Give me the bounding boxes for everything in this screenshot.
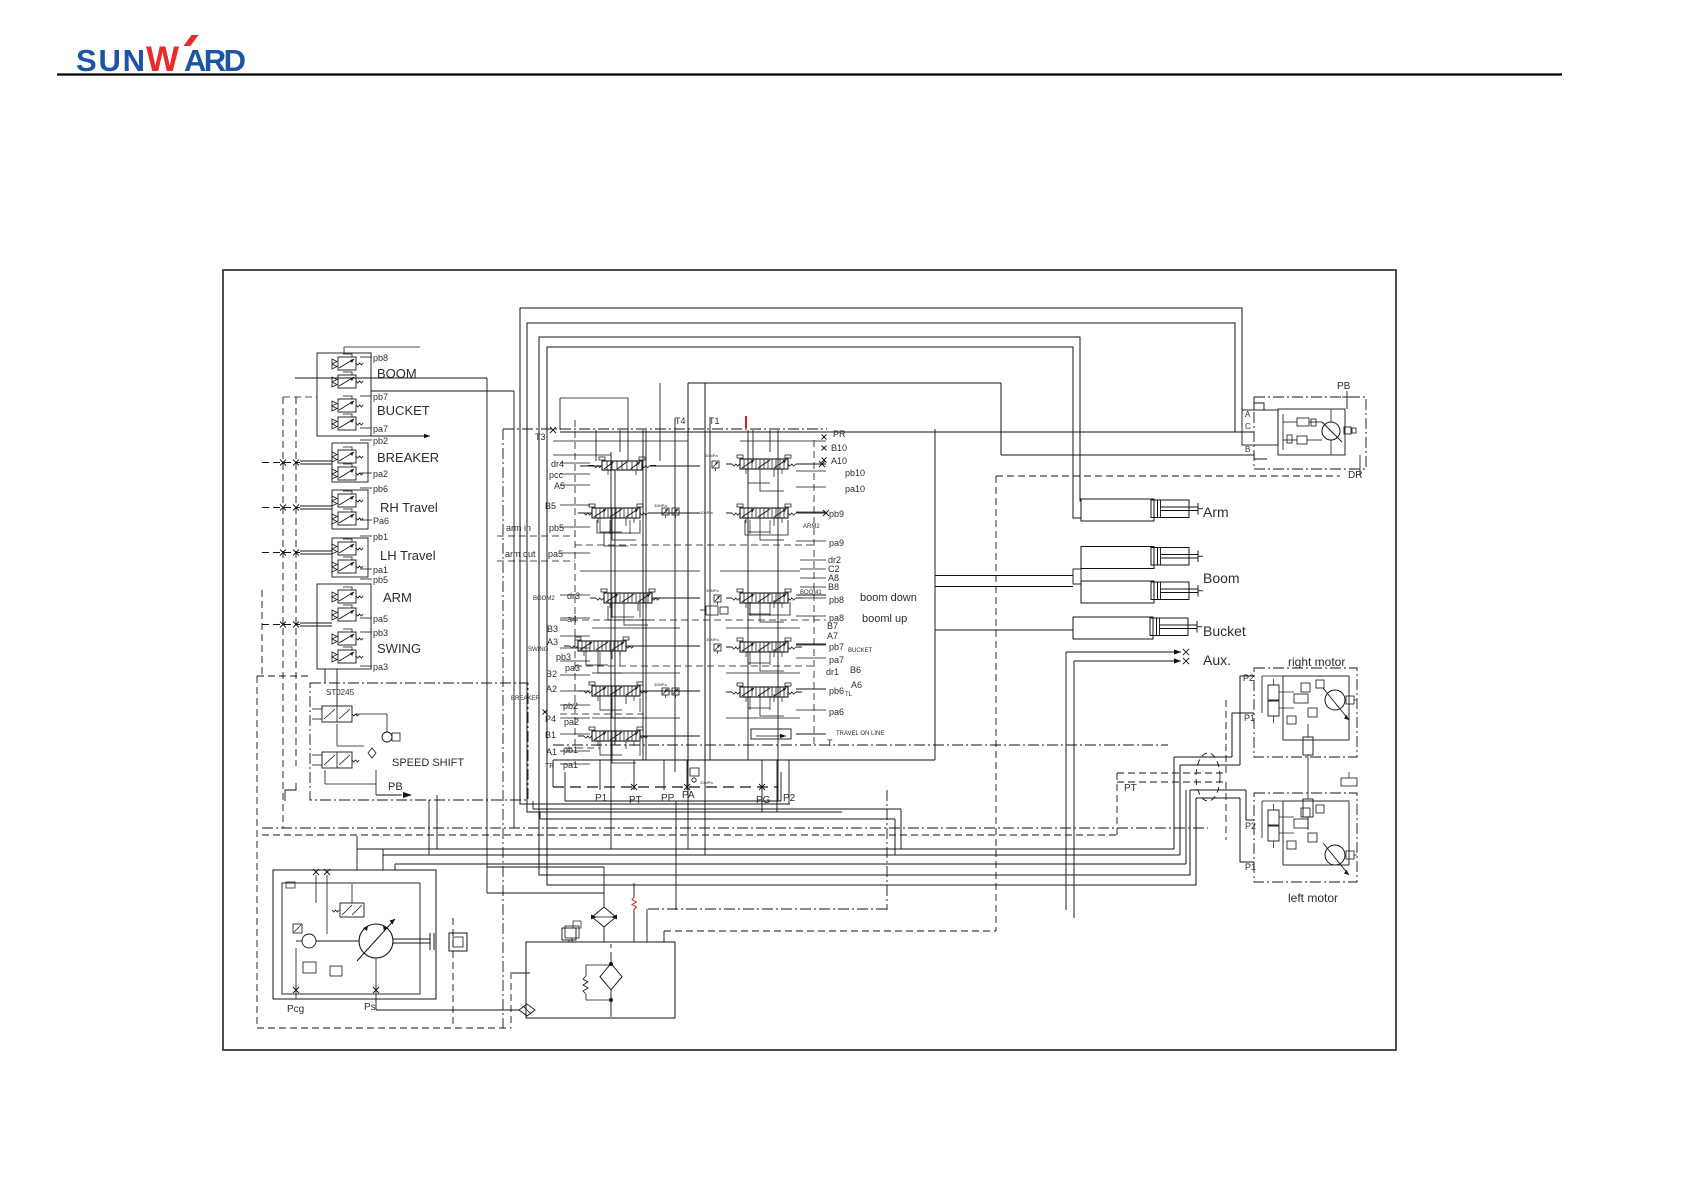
svg-text:A10: A10 (831, 456, 847, 466)
svg-text:pb6: pb6 (829, 686, 844, 696)
svg-text:pa1: pa1 (563, 760, 578, 770)
svg-text:right motor: right motor (1288, 655, 1345, 669)
svg-text:P4: P4 (545, 714, 556, 724)
svg-text:Pa6: Pa6 (373, 516, 389, 526)
svg-text:SUN: SUN (76, 43, 145, 78)
svg-text:TRAVEL ON LINE: TRAVEL ON LINE (836, 731, 884, 737)
svg-text:C: C (1245, 422, 1251, 431)
svg-text:pa7: pa7 (829, 655, 844, 665)
svg-text:pb1: pb1 (563, 745, 578, 755)
svg-text:LH Travel: LH Travel (380, 548, 436, 563)
svg-text:pb10: pb10 (845, 468, 865, 478)
svg-text:30MPa: 30MPa (705, 453, 718, 458)
svg-text:booml up: booml up (862, 613, 907, 625)
svg-text:30MPa: 30MPa (654, 503, 667, 508)
svg-text:30MPa: 30MPa (700, 510, 713, 515)
svg-text:A3: A3 (547, 637, 558, 647)
svg-text:B1: B1 (545, 730, 556, 740)
svg-text:RH Travel: RH Travel (380, 500, 438, 515)
svg-text:Bucket: Bucket (1203, 623, 1246, 639)
svg-text:30MPa: 30MPa (706, 637, 719, 642)
svg-text:PB: PB (1337, 381, 1351, 392)
svg-text:pa3: pa3 (565, 663, 580, 673)
svg-text:pb3: pb3 (373, 628, 388, 638)
svg-text:PR: PR (833, 429, 846, 439)
svg-text:SPEED SHIFT: SPEED SHIFT (392, 757, 464, 769)
svg-text:A7: A7 (827, 631, 838, 641)
svg-text:PB: PB (388, 781, 403, 793)
svg-text:T: T (827, 738, 833, 748)
svg-text:pb9: pb9 (829, 509, 844, 519)
svg-text:B2: B2 (546, 669, 557, 679)
svg-text:Arm: Arm (1203, 504, 1229, 520)
svg-text:B6: B6 (850, 665, 861, 675)
svg-text:P2: P2 (783, 793, 796, 804)
svg-text:B3: B3 (547, 624, 558, 634)
svg-text:a4: a4 (567, 614, 577, 624)
svg-text:ARM2: ARM2 (803, 524, 820, 530)
svg-text:SWING: SWING (377, 641, 421, 656)
svg-text:pb5: pb5 (373, 575, 388, 585)
svg-text:A2: A2 (546, 684, 557, 694)
svg-text:T4: T4 (675, 416, 686, 426)
svg-text:30MPa: 30MPa (706, 588, 719, 593)
svg-text:pa5: pa5 (373, 614, 388, 624)
svg-text:P1: P1 (595, 793, 608, 804)
svg-text:pb2: pb2 (563, 701, 578, 711)
svg-text:pb7: pb7 (829, 642, 844, 652)
svg-text:Aux.: Aux. (1203, 652, 1231, 668)
svg-text:Pcg: Pcg (287, 1004, 304, 1015)
svg-text:A1: A1 (546, 747, 557, 757)
svg-text:PA: PA (682, 790, 695, 801)
svg-text:ARM: ARM (383, 590, 412, 605)
svg-text:pa2: pa2 (373, 469, 388, 479)
svg-text:pa6: pa6 (829, 707, 844, 717)
svg-text:pb2: pb2 (373, 436, 388, 446)
svg-text:B7: B7 (827, 621, 838, 631)
svg-text:B10: B10 (831, 443, 847, 453)
svg-text:P2: P2 (1243, 673, 1254, 683)
svg-text:pb5: pb5 (549, 523, 564, 533)
svg-text:dr3: dr3 (567, 591, 580, 601)
svg-text:TR: TR (545, 763, 554, 770)
svg-text:P1: P1 (1244, 713, 1255, 723)
svg-text:PP: PP (661, 793, 675, 804)
svg-text:SWING: SWING (528, 647, 549, 653)
svg-text:arm out: arm out (505, 549, 536, 559)
svg-text:30MPa: 30MPa (654, 682, 667, 687)
svg-text:pa5: pa5 (548, 549, 563, 559)
svg-text:TL: TL (845, 692, 853, 698)
svg-text:P1: P1 (1245, 862, 1256, 872)
svg-text:pb7: pb7 (373, 392, 388, 402)
svg-text:BREAKER: BREAKER (511, 696, 540, 702)
svg-text:ARD: ARD (184, 43, 246, 78)
svg-text:T1: T1 (709, 416, 720, 426)
svg-text:arm in: arm in (506, 523, 531, 533)
svg-text:B: B (1245, 445, 1250, 454)
svg-text:pa7: pa7 (373, 424, 388, 434)
svg-text:pb6: pb6 (373, 484, 388, 494)
svg-text:PT: PT (1124, 783, 1137, 794)
svg-text:BOOM2: BOOM2 (533, 596, 555, 602)
svg-text:pb3: pb3 (556, 652, 571, 662)
svg-text:pb8: pb8 (373, 353, 388, 363)
svg-text:PG: PG (756, 795, 771, 806)
svg-text:A6: A6 (851, 680, 862, 690)
svg-text:B8: B8 (828, 582, 839, 592)
svg-text:dr4: dr4 (551, 459, 564, 469)
svg-text:BUCKET: BUCKET (377, 403, 430, 418)
svg-text:left motor: left motor (1288, 891, 1338, 905)
svg-text:PT: PT (629, 795, 642, 806)
svg-text:boom down: boom down (860, 592, 917, 604)
svg-text:pb8: pb8 (829, 595, 844, 605)
svg-text:pa3: pa3 (373, 662, 388, 672)
svg-text:A: A (1245, 410, 1251, 419)
svg-text:P2: P2 (1245, 821, 1256, 831)
svg-text:pcc: pcc (549, 470, 564, 480)
svg-text:BUCKET: BUCKET (848, 648, 873, 654)
svg-text:ST0245: ST0245 (326, 688, 355, 697)
svg-text:pa9: pa9 (829, 538, 844, 548)
svg-text:B5: B5 (545, 501, 556, 511)
svg-text:20MPa: 20MPa (700, 780, 713, 785)
svg-text:dr1: dr1 (826, 667, 839, 677)
svg-text:BOOM1: BOOM1 (800, 590, 822, 596)
svg-text:pb1: pb1 (373, 532, 388, 542)
svg-text:Boom: Boom (1203, 570, 1240, 586)
svg-text:A5: A5 (554, 481, 565, 491)
svg-text:Ps: Ps (364, 1002, 376, 1013)
svg-text:pa1: pa1 (373, 565, 388, 575)
svg-text:pa10: pa10 (845, 484, 865, 494)
svg-text:BREAKER: BREAKER (377, 450, 439, 465)
svg-text:pa2: pa2 (564, 717, 579, 727)
svg-text:W: W (146, 40, 179, 79)
svg-text:BOOM: BOOM (377, 366, 417, 381)
svg-text:T3: T3 (535, 432, 546, 442)
